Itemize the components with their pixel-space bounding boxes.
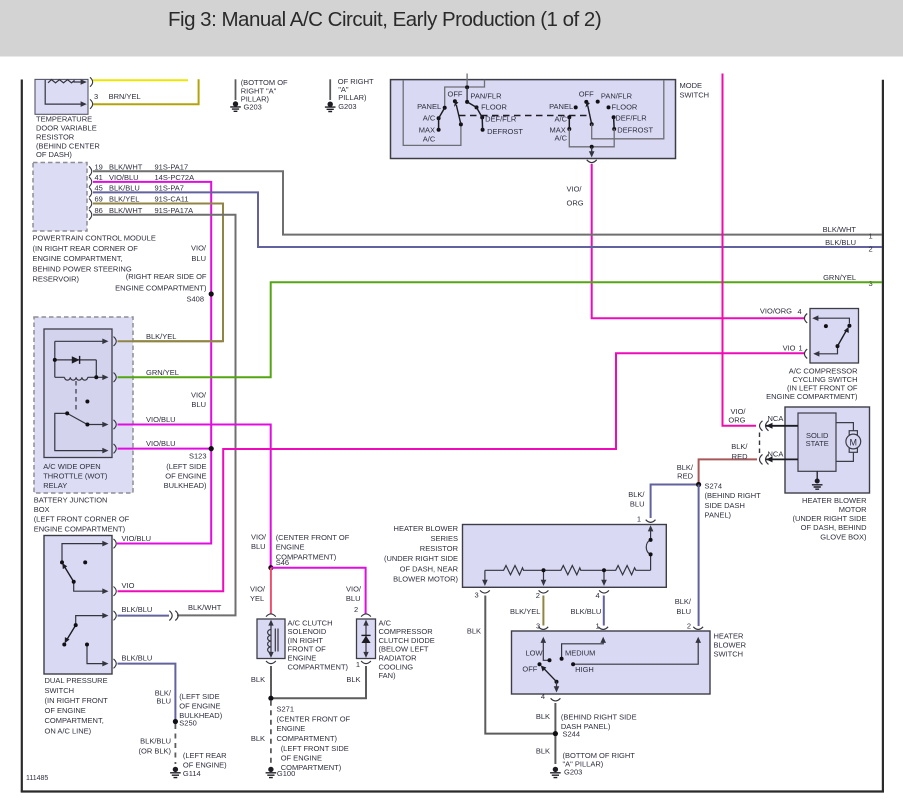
svg-text:BLK/WHT: BLK/WHT (109, 206, 143, 215)
svg-text:(BELOW LEFT: (BELOW LEFT (379, 645, 429, 654)
svg-text:A/C: A/C (555, 134, 568, 143)
svg-text:BLK/BLU: BLK/BLU (122, 605, 153, 614)
svg-text:(BEHIND RIGHT SIDE: (BEHIND RIGHT SIDE (561, 712, 637, 721)
svg-text:19: 19 (95, 162, 103, 171)
svg-text:VIO/: VIO/ (191, 390, 207, 399)
wire BLK/BLU to inline connector (118, 615, 170, 617)
mode switch right: wiper arm (588, 106, 592, 125)
svg-text:(CENTER FRONT OF: (CENTER FRONT OF (276, 533, 350, 542)
wire BLK blower switch pin 4 to S244 (554, 703, 556, 734)
cycling switch wiper arm (838, 331, 847, 347)
A/C wide open throttle WOT relay (inner box) (44, 329, 112, 458)
svg-text:BLK/YEL: BLK/YEL (146, 332, 176, 341)
svg-text:VIO/BLU: VIO/BLU (122, 534, 152, 543)
svg-text:S123: S123 (189, 451, 207, 460)
dual pressure switch pin arrows (102, 541, 108, 547)
svg-text:BLK/YEL: BLK/YEL (510, 607, 540, 616)
dual pressure switch (box) (44, 536, 112, 675)
svg-text:SERIES: SERIES (430, 534, 458, 543)
svg-text:M: M (850, 437, 858, 447)
svg-text:S46: S46 (276, 558, 289, 567)
svg-text:OFF: OFF (522, 664, 537, 673)
svg-text:FRONT OF: FRONT OF (288, 645, 327, 654)
ground G203c (550, 767, 561, 778)
resistor pin 1 connector (top) (646, 520, 656, 523)
svg-text:BLK/: BLK/ (628, 490, 645, 499)
mode switch mechanical link (dashed) (459, 115, 587, 117)
svg-text:BLK: BLK (251, 734, 265, 743)
svg-text:BLK/WHT: BLK/WHT (188, 603, 222, 612)
svg-text:(IN RIGHT REAR CORNER OF: (IN RIGHT REAR CORNER OF (33, 244, 139, 253)
svg-text:DEFROST: DEFROST (487, 127, 523, 136)
svg-text:BOX: BOX (34, 505, 50, 514)
dual pressure switch dots (60, 560, 64, 564)
svg-text:OF ENGINE: OF ENGINE (281, 754, 322, 763)
svg-text:ENGINE: ENGINE (288, 654, 317, 663)
ground G203b (325, 102, 336, 112)
svg-text:BLK: BLK (346, 675, 360, 684)
svg-text:SWITCH: SWITCH (714, 650, 744, 659)
svg-text:(LEFT FRONT SIDE: (LEFT FRONT SIDE (281, 744, 349, 753)
svg-text:PAN/FLR: PAN/FLR (470, 92, 502, 101)
svg-text:OF ENGINE: OF ENGINE (165, 471, 206, 480)
ground G114 (170, 767, 181, 778)
svg-text:CLUTCH DIODE: CLUTCH DIODE (379, 636, 435, 645)
svg-text:BULKHEAD): BULKHEAD) (164, 481, 207, 490)
svg-text:OFF: OFF (579, 90, 594, 99)
wire BLK/BLU dual pressure pin 4 down to S250 (118, 664, 176, 721)
svg-text:91S-PA17: 91S-PA17 (155, 162, 189, 171)
svg-text:ENGINE COMPARTMENT): ENGINE COMPARTMENT) (115, 283, 207, 292)
thermal limiter riser (646, 530, 650, 571)
cycling switch pin 4 path (817, 318, 850, 323)
svg-text:1: 1 (596, 621, 600, 630)
svg-text:VIO: VIO (122, 581, 135, 590)
svg-text:A/C: A/C (379, 618, 392, 627)
svg-text:S244: S244 (563, 729, 581, 738)
svg-text:BLU: BLU (191, 400, 206, 409)
blower switch pin up arrows (541, 637, 547, 643)
svg-text:PILLAR): PILLAR) (338, 93, 367, 102)
diagram left border (21, 80, 23, 792)
relay pin 1 row (55, 340, 103, 342)
svg-text:BLU: BLU (630, 500, 645, 509)
svg-text:BLK/: BLK/ (675, 597, 692, 606)
splice S274 (696, 482, 701, 487)
svg-text:RESISTOR: RESISTOR (36, 132, 75, 141)
splice S244 (553, 731, 558, 736)
diagram bottom border (21, 790, 884, 792)
svg-text:1: 1 (356, 660, 360, 669)
svg-text:A/C: A/C (555, 115, 568, 124)
svg-text:FLOOR: FLOOR (612, 103, 638, 112)
svg-text:(CENTER FRONT OF: (CENTER FRONT OF (277, 714, 351, 723)
mode switch right: MAX to DEFROST return (569, 129, 614, 147)
svg-text:RESERVOIR): RESERVOIR) (33, 275, 80, 284)
svg-text:MODE: MODE (680, 81, 703, 90)
wire BLK/YEL resistor pin 2 to blower switch pin 3 (542, 596, 544, 626)
svg-text:BLK/WHT: BLK/WHT (109, 162, 143, 171)
svg-text:(LEFT FRONT CORNER OF: (LEFT FRONT CORNER OF (34, 515, 130, 524)
svg-text:4: 4 (541, 692, 545, 701)
wire BLK/WHT pin 19 to right edge (circuit 1) (93, 171, 882, 234)
ground G100 (266, 767, 277, 778)
svg-text:VIO/: VIO/ (346, 585, 362, 594)
svg-text:BLK/: BLK/ (731, 442, 748, 451)
svg-text:NCA: NCA (768, 450, 784, 459)
svg-text:OF ENGINE: OF ENGINE (179, 702, 220, 711)
svg-text:BRN/YEL: BRN/YEL (109, 92, 141, 101)
svg-text:3: 3 (869, 279, 873, 288)
svg-text:RELAY: RELAY (43, 481, 67, 490)
svg-text:A/C: A/C (423, 113, 436, 122)
svg-text:GRN/YEL: GRN/YEL (146, 368, 179, 377)
svg-text:PANEL: PANEL (417, 102, 441, 111)
svg-text:ENGINE: ENGINE (276, 543, 305, 552)
svg-text:COOLING: COOLING (379, 662, 414, 671)
relay junction dots (53, 358, 57, 362)
relay diode D (72, 356, 80, 363)
svg-text:MAX: MAX (419, 125, 435, 134)
wire VIO/BLU pin 41 down to S408/S123/dual pressure switch (93, 182, 211, 544)
title bar (0, 0, 903, 57)
svg-text:ENGINE COMPARTMENT): ENGINE COMPARTMENT) (766, 392, 858, 401)
svg-text:14S-PC72A: 14S-PC72A (155, 173, 195, 182)
cycling switch contact dots (847, 324, 851, 328)
svg-text:1: 1 (799, 343, 803, 352)
PCM pin 41 connector (89, 177, 92, 187)
svg-text:DEF/FLR: DEF/FLR (485, 114, 517, 123)
svg-text:BLU: BLU (251, 542, 266, 551)
resistor junction dots (542, 568, 546, 572)
lower wiper arm (67, 625, 75, 639)
wire GRN/YEL relay pin 2 to right edge (circuit 3) (118, 282, 883, 377)
svg-text:DEF/FLR: DEF/FLR (615, 113, 647, 122)
svg-text:(IN RIGHT FRONT: (IN RIGHT FRONT (45, 696, 109, 705)
blower switch output arrow down (556, 682, 558, 688)
svg-text:HEATER BLOWER: HEATER BLOWER (802, 496, 867, 505)
A/C compressor clutch diode connector top (361, 614, 371, 617)
svg-text:SIDE DASH: SIDE DASH (705, 501, 745, 510)
wire VIO from dual pressure to cycling switch pin 1 (118, 353, 805, 591)
wire BLK/BLU pin 45 to right edge (circuit 2) (93, 192, 882, 247)
ground G203a (230, 101, 241, 111)
svg-text:BLK: BLK (536, 712, 550, 721)
svg-text:A/C CLUTCH: A/C CLUTCH (288, 618, 333, 627)
svg-text:COMPRESSOR: COMPRESSOR (379, 627, 434, 636)
PCM pin 45 connector (89, 187, 92, 197)
svg-text:BLK/WHT: BLK/WHT (823, 225, 857, 234)
battery junction box (dashed box) (34, 317, 133, 493)
svg-text:SWITCH: SWITCH (680, 91, 710, 100)
svg-text:COMPARTMENT): COMPARTMENT) (288, 662, 349, 671)
svg-text:PANEL): PANEL) (705, 511, 732, 520)
wire BLK/BLU S274 down to blower switch pin 2 (698, 485, 700, 627)
PCM pin 86 connector (89, 210, 92, 220)
relay coil left leg (54, 341, 56, 377)
svg-text:ORG: ORG (728, 415, 745, 424)
splice S250 (173, 719, 178, 724)
wire BLK/YEL relay pin 1 (118, 340, 223, 342)
svg-text:86: 86 (95, 206, 103, 215)
svg-text:S274: S274 (705, 481, 723, 490)
svg-text:1: 1 (637, 515, 641, 524)
svg-text:GRN/YEL: GRN/YEL (823, 273, 856, 282)
mode switch left: PAN/FLR-FLOOR-DEF/FLR-DEFROST chain (467, 102, 483, 130)
svg-text:OF DASH, BEHIND: OF DASH, BEHIND (801, 523, 867, 532)
temperature resistor pin connector (top) (90, 77, 93, 86)
svg-text:BLU: BLU (156, 696, 171, 705)
wire VIO/YEL S46 down to solenoid (270, 568, 272, 614)
wire BLK dashed to G100 (270, 701, 272, 764)
svg-text:(BEHIND RIGHT: (BEHIND RIGHT (705, 491, 762, 500)
mode switch right: A/C to MAX link (568, 117, 570, 129)
cycling switch pin 1 path (817, 346, 838, 354)
svg-text:VIO/: VIO/ (567, 185, 583, 194)
svg-text:VIO/BLU: VIO/BLU (109, 173, 139, 182)
svg-text:BLK: BLK (251, 675, 265, 684)
wire BLK/YEL pin 69 down to WOT relay (93, 204, 223, 342)
mode switch right: contact dots (584, 100, 588, 104)
wire BLK/BLU S274 to resistor pin 1 (651, 485, 699, 519)
svg-text:A/C WIDE OPEN: A/C WIDE OPEN (43, 462, 101, 471)
blower switch contact dots (548, 658, 552, 662)
svg-text:BLK/BLU: BLK/BLU (109, 183, 140, 192)
svg-text:BLOWER: BLOWER (714, 641, 747, 650)
svg-text:BLK/YEL: BLK/YEL (109, 195, 139, 204)
resistor taps down (485, 570, 604, 581)
A/C compressor clutch diode connector bottom (361, 661, 371, 664)
wire VIO/ORG vertical from top to blower motor (723, 74, 757, 426)
svg-text:DEFROST: DEFROST (617, 125, 653, 134)
svg-text:69: 69 (95, 195, 103, 204)
wire BLK diode pin 1 to S271 (273, 666, 366, 698)
relay diode branch (55, 360, 97, 377)
svg-text:SWITCH: SWITCH (45, 686, 75, 695)
svg-text:HEATER BLOWER: HEATER BLOWER (394, 524, 459, 533)
wire BLK S244 to G203c (554, 736, 556, 764)
relay armature dashed link (75, 381, 77, 410)
svg-text:VIO/BLU: VIO/BLU (146, 439, 176, 448)
svg-text:G203: G203 (338, 102, 356, 111)
svg-text:VIO/: VIO/ (191, 244, 207, 253)
svg-text:1: 1 (869, 232, 873, 241)
svg-text:TEMPERATURE: TEMPERATURE (36, 115, 92, 124)
mode switch right: output junction (590, 145, 594, 149)
A/C compressor clutch diode D2 (box) (357, 619, 376, 659)
relay switch common leg (55, 413, 103, 450)
svg-text:VIO/ORG: VIO/ORG (760, 307, 792, 316)
diagram right border (882, 80, 884, 792)
svg-text:A/C: A/C (423, 135, 436, 144)
wire VIO/BLU relay pin 4 to S123 (118, 448, 211, 450)
splice S271 (268, 696, 273, 701)
svg-text:2: 2 (536, 591, 540, 600)
svg-text:PANEL: PANEL (549, 102, 573, 111)
blower motor ground (812, 471, 823, 489)
svg-text:S271: S271 (277, 705, 295, 714)
temperature resistor pin 3 connector (90, 99, 93, 108)
svg-text:2: 2 (869, 245, 873, 254)
wire to ground G203a (235, 79, 237, 100)
mode switch: node junction top (465, 85, 469, 89)
svg-text:HIGH: HIGH (575, 665, 594, 674)
svg-text:BATTERY JUNCTION: BATTERY JUNCTION (34, 496, 108, 505)
mode switch left: contact dots (465, 100, 469, 104)
svg-text:YEL: YEL (250, 594, 264, 603)
svg-text:BLU: BLU (346, 594, 361, 603)
mode switch: left wiper return path (403, 80, 461, 145)
svg-text:HEATER: HEATER (714, 631, 744, 640)
heater blower motor (box) (785, 407, 870, 493)
svg-text:(RIGHT REAR SIDE OF: (RIGHT REAR SIDE OF (126, 272, 207, 281)
mode switch (box) (391, 80, 676, 159)
motor M (836, 423, 861, 462)
A/C clutch solenoid connector bottom (266, 661, 276, 664)
svg-text:FLOOR: FLOOR (481, 103, 507, 112)
svg-text:2: 2 (354, 605, 358, 614)
inline connector C (169, 611, 178, 621)
resistor bus and zigzags (485, 566, 651, 575)
svg-text:ENGINE COMPARTMENT,: ENGINE COMPARTMENT, (33, 254, 123, 263)
svg-text:POWERTRAIN CONTROL MODULE: POWERTRAIN CONTROL MODULE (33, 234, 156, 243)
svg-text:VIO/BLU: VIO/BLU (146, 415, 176, 424)
svg-text:(UNDER RIGHT SIDE: (UNDER RIGHT SIDE (792, 514, 866, 523)
svg-text:3: 3 (475, 590, 479, 599)
relay pin connectors (114, 337, 117, 346)
upper wiper arm (65, 567, 74, 582)
blower motor NCA wires (765, 425, 798, 427)
dual pressure switch lower output (87, 646, 103, 664)
dashed link between NCA connectors (759, 433, 761, 455)
wire VIO/BLU relay pin 3 down to S46 (118, 425, 271, 568)
svg-text:91S-PA7: 91S-PA7 (155, 183, 184, 192)
svg-text:G203: G203 (564, 768, 582, 777)
blower switch pin 2 leg to HIGH (575, 641, 698, 664)
wire BLK/WHT pin 86 down to inline connector (93, 215, 236, 616)
svg-text:(UNDER RIGHT SIDE: (UNDER RIGHT SIDE (384, 554, 458, 563)
svg-text:ON A/C LINE): ON A/C LINE) (45, 726, 92, 735)
blower switch pin 3 leg (543, 641, 548, 660)
relay pin arrows (102, 339, 108, 345)
mode switch left: wiper arm (456, 105, 461, 125)
svg-text:ENGINE COMPARTMENT): ENGINE COMPARTMENT) (34, 524, 126, 533)
svg-text:MEDIUM: MEDIUM (565, 648, 595, 657)
svg-text:OFF: OFF (448, 90, 463, 99)
PCM pin 69 connector (89, 199, 92, 209)
svg-text:OF DASH, NEAR: OF DASH, NEAR (400, 564, 459, 573)
svg-text:OF DASH): OF DASH) (36, 150, 72, 159)
blower switch pin connectors top (538, 627, 548, 630)
svg-text:41: 41 (95, 173, 103, 182)
NCA connector bottom (760, 454, 769, 464)
mode switch: wire stub above box (466, 74, 468, 86)
wire YEL (top) (93, 79, 188, 81)
svg-text:G100: G100 (277, 769, 295, 778)
svg-text:RESISTOR: RESISTOR (420, 544, 459, 553)
svg-text:GLOVE BOX): GLOVE BOX) (820, 533, 867, 542)
svg-text:NCA: NCA (768, 414, 784, 423)
svg-text:BLU: BLU (191, 254, 206, 263)
svg-text:(LEFT REAR: (LEFT REAR (183, 751, 227, 760)
svg-text:BLK/BLU: BLK/BLU (140, 737, 171, 746)
cycling switch pin 1 connector (804, 349, 807, 358)
svg-text:G203: G203 (244, 102, 262, 111)
svg-text:G114: G114 (183, 769, 201, 778)
A/C clutch solenoid L1 (box) (257, 619, 285, 659)
svg-text:LOW: LOW (526, 648, 544, 657)
NCA connector top (760, 421, 769, 431)
svg-text:3: 3 (536, 621, 540, 630)
wire BLK solenoid to S271 (270, 666, 272, 698)
svg-text:BLOWER MOTOR): BLOWER MOTOR) (393, 574, 458, 583)
svg-text:RED: RED (677, 472, 693, 481)
temperature door variable resistor R1 (box) (35, 79, 88, 114)
blower switch wiper arm (544, 669, 557, 682)
svg-text:(IN RIGHT: (IN RIGHT (288, 636, 324, 645)
svg-text:S408: S408 (186, 295, 204, 304)
blower switch pin 1 leg to MEDIUM (562, 641, 604, 657)
A/C compressor cycling switch (box) (810, 309, 859, 364)
svg-text:RED: RED (732, 452, 748, 461)
svg-text:(OR BLK): (OR BLK) (138, 746, 171, 755)
dual pressure switch pin connectors (114, 539, 117, 548)
svg-text:BLK: BLK (536, 746, 550, 755)
svg-text:4: 4 (596, 591, 600, 600)
svg-text:SOLENOID: SOLENOID (288, 627, 327, 636)
svg-text:PAN/FLR: PAN/FLR (601, 92, 633, 101)
svg-text:VIO: VIO (783, 343, 796, 352)
svg-text:THROTTLE (WOT): THROTTLE (WOT) (43, 471, 108, 480)
mode switch right: wiper riser to top (592, 80, 664, 139)
dual pressure switch upper wiper output (74, 582, 103, 591)
svg-text:(BEHIND CENTER: (BEHIND CENTER (36, 141, 100, 150)
resistor tap arrows (482, 580, 488, 586)
wire BLK/RED from S274 to blower motor (699, 459, 757, 483)
svg-text:S250: S250 (179, 718, 197, 727)
wire BLK resistor pin 3 to S244 (485, 596, 553, 734)
svg-text:(LEFT SIDE: (LEFT SIDE (166, 462, 206, 471)
svg-text:FAN): FAN) (379, 671, 397, 680)
svg-text:111485: 111485 (26, 775, 48, 782)
svg-text:MOTOR: MOTOR (839, 505, 867, 514)
svg-text:91S-CA11: 91S-CA11 (155, 195, 189, 204)
wire BLK/BLU (OR BLK) dashed to G114 (174, 724, 176, 764)
svg-text:RADIATOR: RADIATOR (379, 654, 418, 663)
svg-text:91S-PA17A: 91S-PA17A (155, 206, 194, 215)
splice S46 (268, 565, 273, 570)
mode switch output connector (587, 160, 597, 163)
svg-text:BLK/: BLK/ (677, 463, 694, 472)
svg-text:BLK/BLU: BLK/BLU (571, 607, 602, 616)
A/C clutch solenoid connector top (266, 614, 276, 617)
svg-text:ENGINE: ENGINE (277, 724, 306, 733)
svg-text:DOOR VARIABLE: DOOR VARIABLE (36, 124, 97, 133)
heater blower series resistor R2 (box) (463, 525, 667, 588)
svg-text:COMPARTMENT): COMPARTMENT) (277, 734, 338, 743)
svg-text:OF ENGINE: OF ENGINE (45, 706, 86, 715)
svg-text:BLU: BLU (676, 607, 691, 616)
svg-text:VIO/: VIO/ (251, 533, 267, 542)
svg-text:VIO/: VIO/ (250, 585, 266, 594)
wire BRN/YEL (93, 79, 199, 105)
wire VIO/ORG from mode switch to cycling switch pin 4 (592, 164, 805, 318)
resistor pin connectors (bottom) (480, 590, 490, 593)
svg-text:ORG: ORG (567, 199, 584, 208)
wire VIO/BLU S46 to clutch diode pin 2 (271, 568, 366, 614)
relay coil row (55, 377, 103, 380)
solid state module (inner box) (798, 413, 836, 471)
